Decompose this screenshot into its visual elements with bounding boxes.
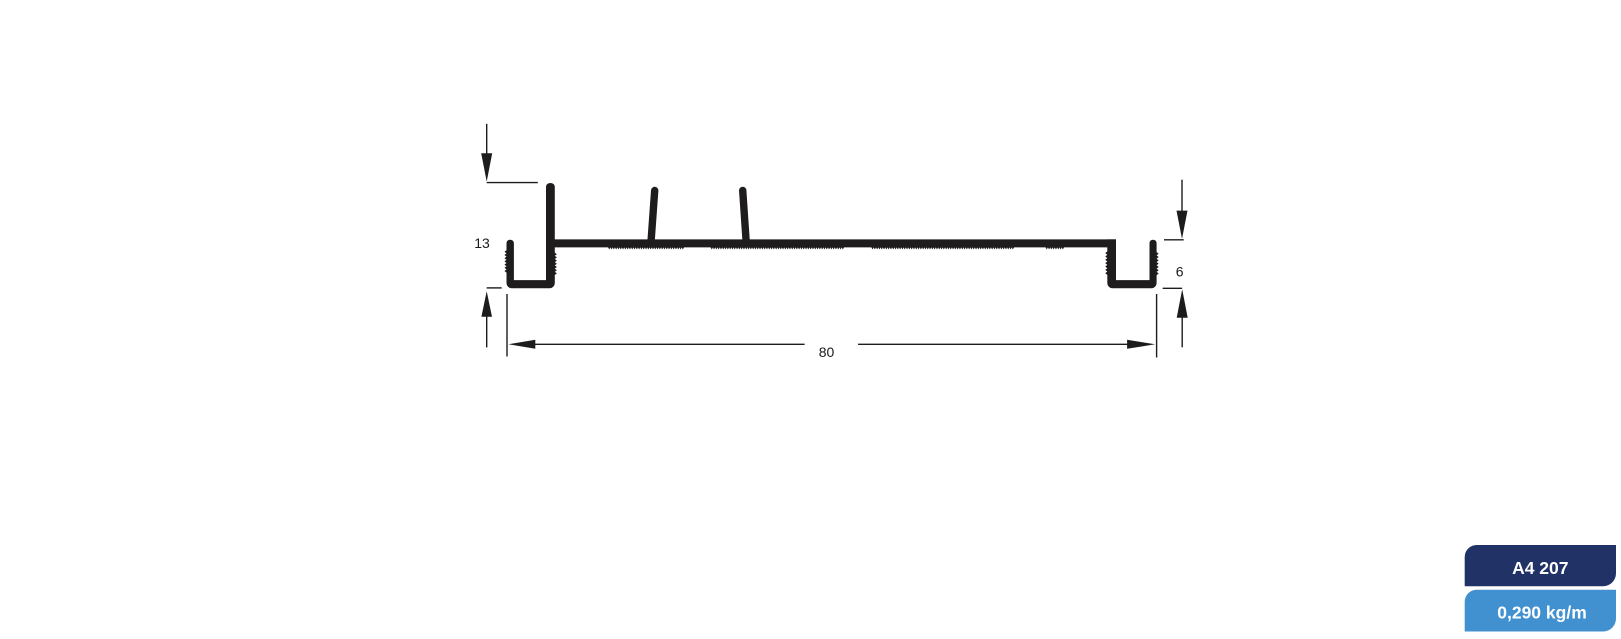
rib 1 (left slanted fin)	[651, 191, 655, 244]
dim 80 left extension line	[506, 294, 508, 357]
dim 80 left arrowhead	[508, 340, 535, 349]
profile base plate with knurled bottom edge	[546, 239, 1116, 249]
dim 6 top datum tick	[1164, 239, 1184, 241]
badge A4 207 (dark navy)	[1465, 545, 1616, 586]
profile left hook (stub, bottom web, tall wall) with serrations	[504, 183, 556, 288]
dim 6 bottom arrowhead (up)	[1177, 289, 1188, 318]
dim 80 line left segment	[534, 343, 805, 345]
rib 2 (right slanted fin)	[743, 190, 747, 243]
dim 13 bottom leader line	[486, 317, 488, 348]
dim 6 top arrowhead (down)	[1177, 211, 1188, 239]
svg-text:6: 6	[1176, 264, 1184, 280]
dim 13 top leader line	[486, 124, 488, 154]
dim 80 line right segment	[858, 343, 1128, 345]
svg-text:80: 80	[819, 344, 835, 360]
dim 13 top datum line to wall top	[487, 182, 538, 184]
dim 80 right arrowhead	[1127, 340, 1155, 349]
badge weight (light blue)	[1465, 590, 1616, 632]
dim 80 right extension line	[1156, 294, 1158, 358]
svg-text:A4 207: A4 207	[1512, 558, 1568, 578]
profile right hook (down wall, bottom web, stub) with serrations	[1105, 239, 1158, 288]
svg-text:13: 13	[474, 235, 490, 251]
dim 6 bottom leader line	[1181, 317, 1183, 347]
dim 6 top leader line	[1181, 180, 1183, 211]
dim 13 top arrowhead (down)	[481, 153, 492, 181]
dim 13 bottom arrowhead (up)	[481, 291, 492, 317]
dim 6 bottom datum tick	[1163, 287, 1182, 289]
svg-text:0,290 kg/m: 0,290 kg/m	[1497, 602, 1587, 622]
dim 13 bottom datum line	[487, 287, 502, 289]
